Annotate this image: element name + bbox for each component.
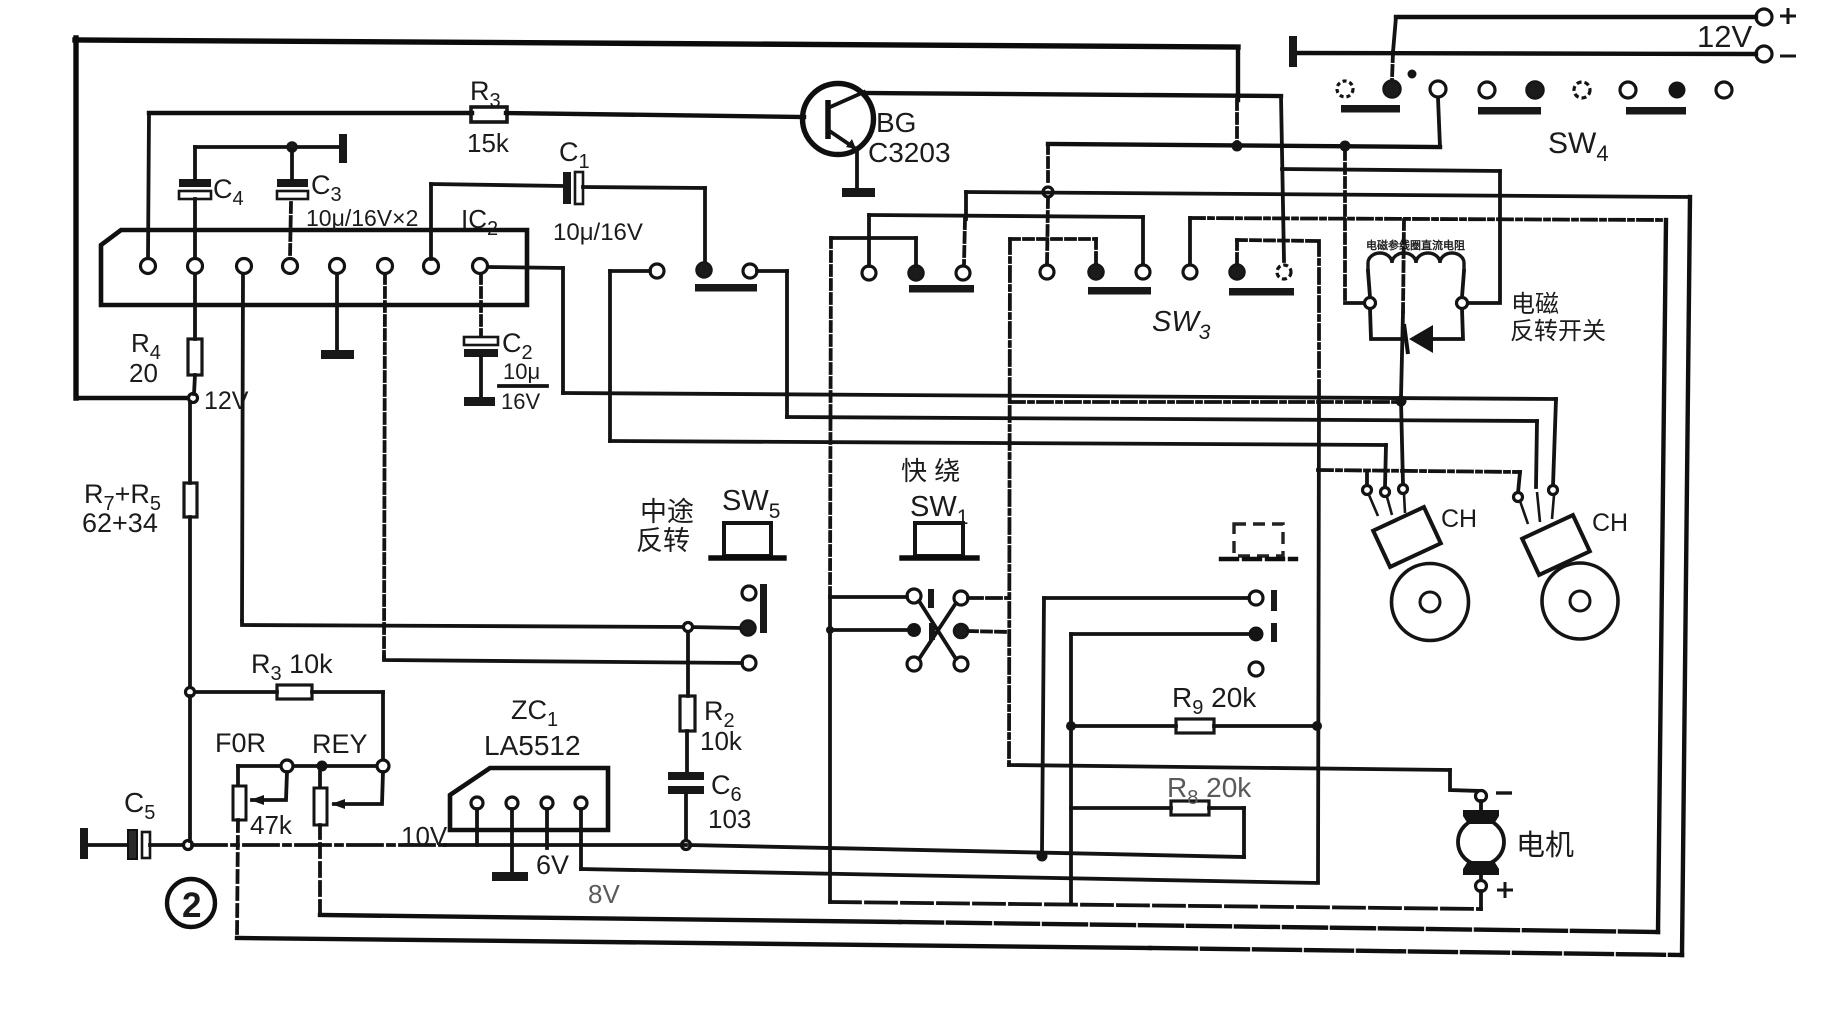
wire pin2 to C4 [193,199,197,258]
capacitor C6 top plate [668,772,704,780]
wire pin3 down long [242,274,243,621]
resistor R2 lead up [686,632,690,696]
svg-text:反转开关: 反转开关 [1510,318,1606,345]
pushbutton ghost cap [1234,524,1283,556]
capacitor C4 top plate [179,179,211,187]
switch SW1 contact TR [954,591,968,605]
contact group1 c3 [743,264,757,278]
wire y634 rail [1071,632,1248,636]
svg-text:10k: 10k [700,726,743,756]
wire SW3 c5 dashed up [1235,240,1239,264]
svg-text:REY: REY [312,729,368,759]
contact bar SW3 a [1088,287,1151,295]
wire W4 rail [966,192,1690,197]
svg-text:15k: 15k [467,128,510,158]
svg-text:10μ: 10μ [503,359,540,384]
wire pin8 y393 rail [563,393,1556,399]
wire 12V feed from border [76,396,188,400]
wire C5 left lead [88,843,128,847]
wire pin8 right [488,267,563,268]
plug terminal bar top [339,134,347,163]
head CH2 connectors [1520,492,1554,524]
wire plus drop dashed [1392,52,1393,80]
node 830 junction [826,626,834,634]
switch SW3 c2 hatched [1089,265,1104,280]
node R2 top junction [684,623,693,632]
wire y626 rail from pin3 [242,621,740,628]
wire W4 left drop dashed to contact [964,219,965,264]
switch SW3 c3 [1136,265,1150,279]
svg-text:CH: CH [1592,509,1628,537]
wire C2 to ground [479,357,483,397]
svg-text:快 绕: 快 绕 [901,456,960,486]
terminal motor minus [1476,791,1487,802]
svg-text:62+34: 62+34 [82,508,158,538]
REY wiper arrow [334,772,383,804]
wire coil right terminal to 1500 [1468,301,1500,305]
pin 3 of IC2 [237,259,252,274]
wire top link C4 C3 plug [195,145,339,149]
reel left hub [1420,592,1440,612]
switch SW1 contact ML filled [907,623,921,637]
wire 787 drop [785,271,789,417]
wire W2 left corner dashed to junction [1046,144,1050,186]
switch FOR arm lower [237,820,238,938]
wire 1403 drop [1401,401,1403,484]
wire y766 step to motor minus [1450,770,1481,791]
reel left outer [1392,564,1469,641]
head CH1 body [1373,507,1441,567]
wire 831 dashed drop to SW1 [830,238,831,597]
resistor R4 lead [193,274,197,339]
svg-text:电磁: 电磁 [1511,291,1559,318]
wire R4 to 12V node [194,375,195,394]
wire SW1 TR right [968,596,1009,600]
FOR wiper arrow [252,772,287,800]
head CH2 body [1522,515,1590,575]
switch REY bar [314,788,327,825]
wire y470 dash rail [1318,470,1520,472]
wire ZC1 pin2 down [510,809,514,872]
reel right hub [1570,591,1590,611]
terminal 12V plus [1756,9,1772,25]
wire R6 left lead [195,690,277,694]
transistor BG C3203 [803,84,874,155]
switch SW4 c9 [1716,82,1732,98]
node 12V junction [189,394,198,403]
wire y441 rail to CH1 [610,441,1386,445]
wire FOR REY row [238,764,377,768]
terminal CH2 a [1514,493,1523,502]
pin 7 of IC2 [424,259,439,274]
wire junction up to R6 node [188,696,192,841]
wire SW1 MR dashed right [968,631,1009,632]
switch FOR bar [233,786,246,820]
capacitor C1 right plate [575,172,583,204]
wire C1 right lead [583,187,705,188]
pin 2 of IC2 [188,259,203,274]
switch SW3 c4 [1183,265,1197,279]
pin 5 of IC2 [330,259,345,274]
wire emitter down [855,151,859,188]
node R9 right [1312,721,1322,731]
SW1 cross stroke b [919,603,956,659]
switch REY arm upper [318,772,322,787]
wire R3 rail [149,111,472,115]
svg-text:BG: BG [876,107,916,138]
plug terminal bar minus [1289,36,1297,67]
wire bottom REY rail [320,915,900,922]
wire SW3 box top dashed [1010,237,1096,241]
wire SW3 c5 dashed top link [1237,240,1319,241]
svg-text:8V: 8V [588,879,620,909]
wire SW3 c2 dashed up [1094,239,1098,264]
switch SW4 c1 [1337,81,1353,97]
wire R3 to transistor base [506,113,804,117]
wire SW1 TL left [830,595,907,599]
wire R7R5 down to R6 node [188,517,192,688]
resistor R6 body [277,685,312,699]
terminal 12V minus [1756,46,1772,62]
wire W2 rail [1048,144,1440,147]
wire y766 long rail [1009,765,1450,770]
contact bar SW5 [760,584,767,633]
switch SW1 contact TL [907,589,921,603]
pushbutton SW5 cap [724,523,771,556]
pin 2 of ZC1 [506,797,518,809]
wire W5 dashed rail [1190,218,1666,220]
wire W3 rail [1282,169,1500,171]
svg-text:CH: CH [1441,505,1477,533]
terminal motor plus [1476,881,1487,892]
wire SW3 c3 up [1141,217,1145,264]
contact bar SW1 a [928,589,934,608]
node C5 junction [184,841,193,850]
switch SW4 c7 [1620,82,1636,98]
wire motor plus down [1479,891,1483,909]
switch SW4 c8 filled [1669,82,1686,99]
wire 8V rail [581,869,1318,883]
wire collector rail W1 [862,93,1281,96]
inductor electromagnetic coil [1368,253,1464,271]
wire R9 left lead [1071,724,1176,728]
switch SW4 c6 [1574,82,1590,98]
wire y598 rail [1044,596,1249,600]
node W2-1237 [1232,141,1243,152]
wire stub CH1 a [1365,472,1369,485]
transistor base bar [825,100,831,139]
motor bottom cap [1463,861,1499,875]
page number circled 2 [167,879,215,927]
switch SW3 c6 [1277,265,1291,279]
pin 1 of IC2 [141,259,156,274]
wire 1345 drop to coil [1343,150,1347,300]
node C3 top junction [288,143,297,152]
switch SW3 c5 hatched [1230,265,1245,280]
wire pin1 up to R3 rail [148,113,149,258]
contact group1 c2 hatched [697,263,712,278]
wire pin8 branch down right of IC [561,268,565,393]
pin 1 of ZC1 [471,797,483,809]
svg-text:中途: 中途 [640,497,694,527]
svg-text:C3203: C3203 [868,137,951,168]
wire pin6 dashed down long [384,274,385,657]
contact group2 c3 [956,266,970,280]
ground under transistor [842,188,875,197]
svg-text:反转: 反转 [636,526,690,556]
svg-text:10μ/16V×2: 10μ/16V×2 [306,205,418,231]
terminal CH1 a [1363,486,1372,495]
pushbutton ghost base [1221,557,1296,561]
wire main rail y845 right part [690,845,1244,857]
wire border right drop to W2 [1236,47,1240,100]
capacitor C3 top plate [277,179,308,187]
wire bottom REY rail dashed part [900,922,1658,932]
wire plus rail [1396,15,1756,19]
contact bar SW3 b [1229,288,1294,296]
svg-text:10V: 10V [401,821,448,851]
switch REY arm lower [318,825,322,915]
wire 610 drop [608,271,612,441]
pushbutton SW5 base line [711,555,784,560]
switch SW3 c1 [1040,265,1054,279]
wire W3 drop to coil right [1498,171,1502,300]
wire SW1 ML left [832,628,906,632]
ground at pin5 [321,350,354,359]
switch SW4 c5 hatched [1527,82,1544,99]
wire tall right vertical 1 [1658,220,1666,932]
node junction ring 1048 [1043,187,1053,197]
wire SW3 bottom dashed rail [1010,400,1396,404]
wire C4 up [193,147,197,179]
wire R6 right lead [312,690,383,694]
wire top border rail [75,40,1238,47]
node y396 dot [1396,396,1407,407]
wire W4 left drop solid [964,192,968,219]
switch SW4 c2 hatched [1384,81,1401,98]
emitter arrowhead [846,139,856,149]
diode cathode bar [1404,324,1408,354]
capacitor C2 dashed lead [479,274,483,336]
wire minus rail [1298,53,1756,54]
wire y417 rail to CH2 [787,417,1537,421]
plug terminal bar C5 [80,828,88,859]
contact bar group2 [909,285,974,293]
wire g2c2 up [914,238,918,266]
svg-text:20: 20 [129,358,158,388]
contact bar R group a [1271,590,1277,611]
resistor R9 body [1176,719,1214,733]
node coil right terminal [1457,298,1468,309]
contact group1 c1 [650,264,664,278]
contact bar SW4 b [1478,107,1541,115]
wire g2c1 up [867,215,871,266]
wire bottom FOR rail [237,938,1150,948]
wire motor plus rail dashed [830,902,1481,909]
svg-text:16V: 16V [501,389,540,414]
switch SW1 contact BL [907,657,921,671]
contact SW5 top [742,586,756,600]
contact group2 c2 hatched [909,266,924,281]
wire 1319 long vertical [1317,241,1321,402]
contact SW5 mid hatched [741,621,756,636]
wire coil left loop [1370,309,1404,339]
contact bar R group b [1271,623,1277,642]
svg-text:LA5512: LA5512 [484,730,581,761]
wire R8 right lead [1209,806,1244,810]
node W2-1345 [1340,141,1351,152]
SW1 cross stroke a [919,601,956,659]
contact R group top [1249,591,1263,605]
wire 12V node down [188,402,192,483]
contact group2 c1 [862,266,876,280]
contact row right ring [377,760,389,772]
node C6 bottom junction [682,841,691,850]
contact FOR ring [281,760,293,772]
transistor collector stroke [828,92,864,108]
wire y470 drop to CH2 [1518,472,1520,493]
wire W2 right corner up to SW4 c3 [1438,98,1440,147]
capacitor C6 bottom plate [668,786,704,794]
pushbutton SW1 base line [902,555,977,560]
resistor R8 body [1171,801,1209,815]
wire R9 right lead [1214,724,1313,728]
capacitor C4 bottom plate [179,191,211,199]
terminal CH1 c [1399,485,1408,494]
node R9 left [1066,721,1076,731]
contact bar group1 [695,284,757,292]
pin 4 of IC2 [283,259,298,274]
switch SW1 contact MR hatched [954,624,968,638]
wire 1071 vertical [1069,634,1073,902]
wire y441 drop to CH1 [1385,445,1386,487]
switch FOR arm upper [236,766,240,785]
contact R group bottom [1249,662,1263,676]
svg-text:10μ/16V: 10μ/16V [553,219,643,246]
capacitor C5 left plate [128,830,137,859]
node R6 left junction [186,688,195,697]
contact SW5 bottom [742,656,756,670]
wire tall right vertical 2 [1682,197,1690,955]
pin 3 of ZC1 [541,797,553,809]
wire SW3 c1 dashed up [1047,198,1048,264]
capacitor C2 bottom plate [464,349,498,357]
wire SW3 c4 up [1188,218,1192,264]
contact R group mid filled [1249,627,1264,642]
wire g1c3 right [757,269,787,273]
wire ZC1 pin1 down [475,809,479,845]
wire plus drop to SW4 c2 [1393,17,1396,52]
transistor emitter stroke [828,130,856,149]
svg-text:电磁参线圈直流电阻: 电磁参线圈直流电阻 [1366,238,1465,252]
wire coil left lead [1368,271,1370,297]
wire C3 up to junction [290,150,294,179]
wire y417 drop to CH2 [1536,421,1537,487]
contact bar SW4 a [1341,105,1400,113]
wire C1 drop to contact [703,188,707,262]
svg-text:6V: 6V [536,850,569,880]
capacitor C2 top plate [464,337,498,345]
wire left border rail [73,38,78,398]
pushbutton SW1 cap [915,523,963,556]
pin 6 of IC2 [378,259,393,274]
switch SW4 c4 [1479,82,1495,98]
wire W1 corner down to SW3 c6 [1281,96,1284,261]
resistor R7+R5 body [184,483,197,517]
wire ZC1 pin3 down [545,809,549,848]
svg-text:103: 103 [708,804,751,834]
wire pin7 up to C1 [429,184,433,259]
wire C1 left lead [431,184,562,186]
wire pin4 dashed up to C3 [290,203,291,258]
svg-text:F0R: F0R [215,728,266,758]
wire R8 left lead [1071,806,1171,810]
wire g1c1 left [610,269,650,273]
resistor R2 body [680,696,695,731]
wire 1404 vertical from W5 to CH node [1403,220,1404,312]
svg-text:2: 2 [182,886,201,925]
wire 1043 drop [1042,598,1044,851]
wire y396 drop to CH2 right [1553,399,1556,486]
capacitor C3 bottom plate [277,191,308,199]
svg-text:电机: 电机 [1516,829,1574,862]
wire coil right lead [1462,271,1464,297]
wire pin5 to ground [335,274,339,350]
wire 830 vertical lower [828,597,832,902]
capacitor C5 right plate [142,832,150,858]
wire C6 down to main rail [684,794,688,840]
switch SW1 contact BR [954,657,968,671]
wire SW3 box left vertical [1009,239,1010,765]
node REY filled [317,761,328,772]
head CH1 connectors [1369,494,1405,516]
wire R6 drop to REY row [381,692,385,759]
wire y215 link rail [869,215,1143,217]
contact bar SW4 c [1626,107,1686,115]
resistor R4 body [188,339,202,375]
pin 4 of ZC1 [575,797,587,809]
IC U-IC2 body [101,230,527,305]
svg-text:12V: 12V [1697,19,1752,54]
wire coil left terminal to 1345 [1345,301,1364,305]
svg-text:47k: 47k [250,810,293,840]
wire coil right loop [1433,309,1463,339]
resistor R3 body [471,107,507,122]
node main rail 1042 [1037,851,1048,862]
motor top cap [1463,810,1499,824]
wire R2 to C6 [685,731,689,773]
terminal CH1 b [1381,488,1390,497]
node coil left terminal [1365,298,1376,309]
wire ZC1 pin4 down [579,809,583,869]
ground under C2 [464,397,495,406]
wire main rail y845 [192,843,445,847]
contact bar SW1 b [929,623,935,640]
IC ZC1 body [450,768,608,830]
motor body [1458,819,1504,865]
wire motor plus stem [1479,874,1483,881]
wire border right drop dashed part [1235,100,1239,143]
node stray dot [1408,70,1417,79]
terminal CH2 b [1549,486,1558,495]
wire y660 rail from pin6 [384,657,742,663]
switch SW4 c3 [1430,81,1446,97]
wire y238 left [831,236,916,240]
wire R8 drop to main rail [1242,808,1246,857]
pin 8 of IC2 [473,259,488,274]
reel right outer [1542,563,1618,639]
capacitor C1 left plate [563,172,571,204]
